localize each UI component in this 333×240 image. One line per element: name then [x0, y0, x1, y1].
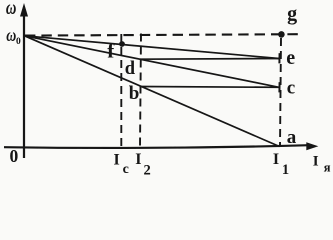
svg-text:ω: ω	[6, 0, 17, 19]
tick at point c	[278, 82, 280, 92]
vertical dashed line at I1	[280, 38, 281, 147]
svg-text:я: я	[324, 161, 331, 175]
svg-text:I: I	[273, 151, 279, 168]
svg-text:ω: ω	[6, 25, 16, 45]
dashed horizontal line at omega0 level	[25, 34, 299, 35]
svg-text:1: 1	[282, 162, 289, 178]
point g dot	[278, 31, 285, 38]
svg-text:f: f	[107, 39, 115, 63]
svg-text:d: d	[125, 59, 136, 79]
horizontal transition segment b to c	[140, 86, 280, 89]
tick at point e	[278, 53, 280, 63]
svg-text:I: I	[313, 153, 319, 169]
svg-text:I: I	[114, 152, 120, 169]
svg-text:c: c	[287, 78, 295, 99]
y-axis arrowhead	[20, 3, 28, 17]
svg-text:0: 0	[16, 37, 21, 47]
middle characteristic line (to point c)	[25, 36, 280, 88]
y-axis (omega axis)	[23, 10, 25, 158]
svg-text:0: 0	[10, 146, 19, 166]
steep characteristic line (to point a)	[25, 36, 280, 147]
svg-text:g: g	[287, 3, 297, 25]
svg-text:c: c	[123, 162, 129, 177]
x-axis arrowhead	[306, 142, 318, 150]
x-axis (current axis)	[4, 145, 309, 148]
vertical dashed line at Ic	[120, 34, 122, 147]
vertical dashed line at I2	[140, 34, 141, 147]
natural characteristic line (to point e)	[25, 36, 280, 59]
svg-text:a: a	[287, 127, 297, 148]
svg-text:e: e	[286, 47, 295, 69]
svg-text:I: I	[135, 151, 141, 168]
point f dot	[119, 41, 125, 47]
svg-text:2: 2	[144, 163, 151, 179]
horizontal transition segment d to e	[140, 58, 279, 61]
svg-text:b: b	[129, 83, 140, 104]
